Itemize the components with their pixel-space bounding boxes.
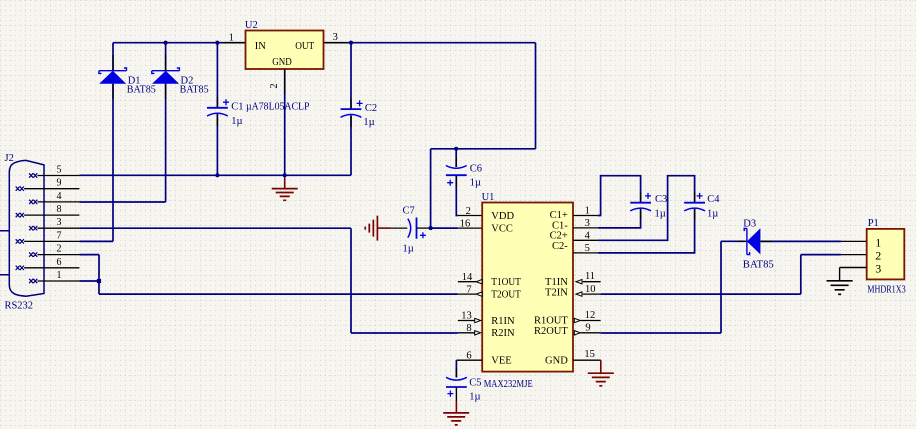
P1 pin 3 line and ground wire (840, 268, 867, 281)
wire C5 to ground (455, 387, 457, 413)
label BAT85 of D1 (127, 83, 156, 95)
U1 pin 13 (R1IN) arrow (458, 318, 481, 322)
svg-text:D3: D3 (743, 218, 756, 229)
svg-text:C1: C1 (231, 102, 243, 113)
label C1 (231, 102, 243, 113)
U1 pin name C2- (552, 241, 568, 252)
ground symbol below U1 pin 15 (588, 360, 614, 386)
junction D2-rail (164, 41, 168, 45)
U1 pin name T2OUT (491, 290, 521, 301)
wire U2 pin 3 to corner x535 (324, 42, 536, 44)
svg-text:J2: J2 (5, 153, 14, 164)
ground symbol below U2 (272, 175, 298, 200)
wire J2 pin 2 down (79, 255, 99, 295)
U2 pin name GND (272, 57, 292, 68)
svg-text:7: 7 (466, 284, 471, 295)
svg-text:T2IN: T2IN (545, 288, 568, 299)
svg-text:2: 2 (57, 244, 62, 255)
svg-text:R2OUT: R2OUT (534, 326, 568, 337)
connector J2 pin 4 contact (29, 200, 37, 204)
svg-text:BAT85: BAT85 (127, 83, 156, 95)
svg-text:GND: GND (545, 356, 568, 367)
U1 pin name VEE (491, 356, 511, 367)
svg-text:9: 9 (57, 178, 62, 189)
svg-text:C3: C3 (655, 194, 667, 205)
svg-text:13: 13 (461, 311, 472, 322)
svg-text:16: 16 (460, 218, 471, 229)
svg-text:T1IN: T1IN (545, 277, 568, 288)
pin number 3 of U2 (333, 32, 338, 43)
U1 pin 16 number (460, 218, 471, 229)
capacitor C1 vertical wires (216, 43, 218, 176)
svg-text:1: 1 (57, 270, 62, 281)
connector J2 pin 1 contact (29, 279, 37, 283)
P1 pin 2 number (875, 249, 881, 263)
ground symbol below C5 (443, 413, 469, 425)
P1 pin 3 number (875, 262, 881, 276)
svg-text:U1: U1 (482, 192, 495, 203)
diode D1 vertical wire (cathode up to rail, anode down to pin 7 wire) (79, 43, 113, 242)
connector J2 pin 7 contact (16, 239, 24, 243)
U1 pin 13 number (461, 311, 472, 322)
label C4 (707, 194, 720, 205)
U1 pin 8 (R2IN) arrow (458, 331, 481, 335)
capacitor C5 (446, 377, 467, 396)
wire D3 anode to P1 pin 1 (760, 240, 866, 242)
value 1u of C7 (403, 244, 414, 255)
svg-text:15: 15 (584, 349, 595, 360)
svg-text:U2: U2 (245, 20, 258, 31)
svg-text:GND: GND (272, 57, 292, 68)
connector J2 pin 6 line (24, 267, 79, 269)
U1 pin name GND (545, 356, 568, 367)
wire vertical x535 down (535, 43, 537, 149)
svg-text:2: 2 (269, 83, 280, 88)
U1 pin name R1IN (491, 316, 515, 327)
capacitor C6 (446, 166, 467, 186)
U1 pin 12 (R1OUT) stub (574, 318, 600, 322)
value 1u of C4 (707, 209, 718, 220)
junction C7-VCC node (429, 226, 433, 230)
svg-text:1µ: 1µ (231, 116, 242, 127)
diode D1 (BAT85 schottky) (99, 68, 127, 84)
U1 pin name C1+ (550, 210, 568, 221)
svg-text:7: 7 (57, 230, 62, 241)
svg-text:2: 2 (466, 206, 471, 217)
connector J2 pin 5 contact (29, 173, 37, 177)
U1 pin name VCC (491, 223, 513, 234)
svg-text:8: 8 (466, 323, 471, 334)
svg-text:5: 5 (585, 243, 590, 254)
svg-text:T2OUT: T2OUT (491, 290, 521, 301)
U1 pin 10 number (585, 284, 596, 295)
svg-text:4: 4 (585, 230, 591, 241)
label C5 (469, 378, 481, 389)
wire U1 pin4 to C4 (598, 176, 695, 241)
connector J2 pin 9 line (24, 188, 79, 190)
svg-text:C2-: C2- (552, 241, 568, 252)
svg-text:C2: C2 (365, 103, 377, 114)
value 1u of C1 (231, 116, 242, 127)
value 1u of C2 (363, 117, 374, 128)
U1 pin 6 number (466, 350, 471, 361)
pin number 8 of J2 (57, 204, 62, 215)
svg-text:3: 3 (57, 217, 62, 228)
connector J2 pin 4 line (38, 201, 80, 203)
U1 pin name R1OUT (534, 316, 568, 327)
connector J2 pin 2 line (38, 254, 80, 256)
svg-text:R1IN: R1IN (491, 316, 515, 327)
label D1 (128, 76, 141, 87)
svg-text:8: 8 (57, 204, 62, 215)
svg-text:1µ: 1µ (403, 244, 414, 255)
pin number 1 of U2 (229, 32, 234, 43)
svg-text:R2IN: R2IN (491, 328, 515, 339)
capacitor C6 wires (456, 149, 482, 216)
label C7 (403, 206, 415, 217)
svg-text:µA78L05ACLP: µA78L05ACLP (246, 101, 310, 113)
U1 pin 9 number (585, 323, 590, 334)
pin number 2 of J2 (57, 244, 62, 255)
U1 pin 14 (T1OUT) stub (458, 280, 482, 284)
svg-text:MAX232MJE: MAX232MJE (484, 378, 533, 390)
diode D3 (BAT85 schottky) (744, 228, 760, 254)
U1 pin 15 number (584, 349, 595, 360)
svg-text:1µ: 1µ (363, 117, 374, 128)
label C6 (470, 163, 482, 174)
ground symbol left of C7 (365, 216, 390, 241)
svg-text:BAT85: BAT85 (743, 258, 774, 270)
svg-text:C7: C7 (403, 206, 415, 217)
wire horizontal rail y148 to C6/VDD (431, 148, 536, 150)
pin number 4 of J2 (57, 191, 62, 202)
junction C2-rail top (349, 41, 353, 45)
connector J2 pin 3 line (38, 227, 80, 229)
svg-text:10: 10 (585, 284, 596, 295)
junction C1-ground rail (215, 173, 219, 177)
wire U1 pin6 to C5 (455, 360, 457, 377)
wire VCC node to U1 pin 16 (431, 227, 483, 229)
pin number 3 of J2 (57, 217, 62, 228)
svg-text:C5: C5 (469, 378, 481, 389)
svg-text:3: 3 (585, 218, 590, 229)
U1 pin 4 line (573, 239, 598, 241)
svg-text:VEE: VEE (491, 356, 511, 367)
regulator U2 box (246, 31, 324, 70)
wire vertical x430 down to VCC node (430, 149, 432, 228)
U1 pin 5 line (573, 252, 598, 254)
capacitor C1 (207, 99, 229, 116)
junction C1-rail top (215, 41, 219, 45)
capacitor C4 (684, 193, 705, 211)
U1 pin name VDD (491, 211, 514, 222)
svg-text:6: 6 (466, 350, 471, 361)
junction C6-rail (454, 147, 458, 151)
wire C4 to U1 pin5 (598, 209, 695, 253)
U1 pin name R2OUT (534, 326, 568, 337)
value 1u of C3 (655, 209, 666, 220)
U1 pin 7 number (466, 284, 471, 295)
diode D2 vertical wire (cathode to rail junction, anode to pin 4 wire) (79, 43, 165, 202)
svg-text:12: 12 (585, 310, 596, 321)
label C3 (655, 194, 667, 205)
value 1u of C6 (470, 178, 481, 189)
U1 pin 11 number (585, 271, 595, 282)
svg-text:R1OUT: R1OUT (534, 316, 568, 327)
label uA78L05ACLP (246, 101, 310, 113)
U1 pin 3 number (585, 218, 590, 229)
U1 pin name T1IN (545, 277, 568, 288)
U1 pin 1 number (585, 206, 590, 217)
svg-text:3: 3 (333, 32, 338, 43)
svg-text:9: 9 (585, 323, 590, 334)
wire U1 pin1 to C3 (598, 176, 641, 216)
connector J2 body (0, 160, 44, 296)
ground symbol at P1 (black) (827, 281, 853, 295)
pin number 2 of U2 (rotated) (269, 83, 280, 88)
pin number 7 of J2 (57, 230, 62, 241)
U1 pin 6 (VEE) line (456, 359, 482, 361)
label MHDR1X3 (867, 285, 906, 296)
label U1 (482, 192, 495, 203)
U1 pin name C2+ (550, 231, 568, 242)
svg-text:T1OUT: T1OUT (491, 277, 521, 288)
U2 pin name OUT (295, 41, 315, 52)
U2 pin 2 (GND) vertical wire (284, 69, 286, 175)
connector J2 pin 1 line (38, 280, 80, 282)
wire ground rail from J2 pin 5 (79, 174, 351, 176)
svg-text:3: 3 (875, 262, 881, 276)
svg-text:1µ: 1µ (470, 178, 481, 189)
value 1u of C5 (469, 391, 480, 402)
capacitor C3 (630, 193, 651, 211)
pin number 1 of J2 (57, 270, 62, 281)
label J2 (5, 153, 14, 164)
svg-text:1: 1 (229, 32, 234, 43)
svg-text:1µ: 1µ (469, 391, 480, 402)
svg-text:RS232: RS232 (5, 299, 34, 311)
svg-text:1: 1 (585, 206, 590, 217)
svg-text:OUT: OUT (295, 41, 315, 52)
wire C3 to U1 pin3 (598, 209, 641, 228)
P1 pin 1 number (875, 236, 881, 250)
label D3 (743, 218, 756, 229)
junction U2 gnd-rail (283, 173, 287, 177)
U1 pin name T1OUT (491, 277, 521, 288)
U1 pin 4 number (585, 230, 591, 241)
U1 pin 9 (R2OUT) arrow (574, 331, 600, 335)
U1 pin name T2IN (545, 288, 568, 299)
svg-text:VDD: VDD (491, 211, 514, 222)
label BAT85 of D3 (743, 258, 774, 270)
U1 pin 15 (GND) line (573, 359, 601, 361)
svg-text:IN: IN (255, 41, 266, 52)
svg-text:C4: C4 (707, 194, 720, 205)
label BAT85 of D2 (180, 83, 209, 95)
U1 pin 12 number (585, 310, 596, 321)
wire T2OUT long horizontal (99, 293, 458, 295)
U1 pin 1 line (573, 215, 598, 217)
U1 pin 2 number (466, 206, 471, 217)
connector J2 pin 2 contact (29, 252, 37, 256)
ic U1 box (482, 203, 573, 372)
capacitor C7 horizontal (390, 218, 431, 239)
svg-text:4: 4 (57, 191, 62, 202)
pin number 9 of J2 (57, 178, 62, 189)
connector J2 pin 6 contact (16, 266, 24, 270)
pin number 6 of J2 (57, 257, 62, 268)
label MAX232MJE (484, 378, 533, 390)
svg-text:MHDR1X3: MHDR1X3 (867, 285, 906, 296)
label RS232 (5, 299, 34, 311)
diode D2 (BAT85 schottky) (152, 68, 180, 84)
svg-text:11: 11 (585, 271, 595, 282)
label C2 (365, 103, 377, 114)
svg-text:1: 1 (875, 236, 881, 250)
svg-text:14: 14 (462, 272, 473, 283)
svg-text:2: 2 (875, 249, 881, 263)
U2 pin name IN (255, 41, 266, 52)
capacitor C2 vertical wires (350, 43, 352, 176)
wire top +V rail from D1 to U2 pin 1 (113, 42, 246, 44)
connector J2 pin 3 contact (29, 226, 37, 230)
U1 pin name C1- (552, 220, 568, 231)
svg-text:5: 5 (57, 165, 62, 176)
svg-text:6: 6 (57, 257, 62, 268)
svg-text:BAT85: BAT85 (180, 83, 209, 95)
label P1 (868, 218, 879, 229)
U1 pin 11 (T1IN) stub (576, 280, 601, 284)
connector J2 pin 7 line (24, 240, 79, 242)
U1 pin 5 number (585, 243, 590, 254)
U1 pin 8 number (466, 323, 471, 334)
wire J2 pin 1 stub (79, 280, 99, 282)
label U2 (245, 20, 258, 31)
label D2 (181, 76, 194, 87)
svg-text:P1: P1 (868, 218, 879, 229)
U1 pin 14 number (462, 272, 473, 283)
svg-text:1µ: 1µ (655, 209, 666, 220)
wire J2 pin 3 to R2IN (79, 228, 458, 333)
svg-text:1µ: 1µ (707, 209, 718, 220)
wire R2OUT to D3 (601, 241, 747, 333)
U1 pin 7 (T2OUT) arrow (458, 292, 482, 296)
wire T2IN to P1 pin 2 (601, 255, 867, 295)
connector J2 pin 8 line (24, 214, 79, 216)
connector J2 pin 5 line (38, 175, 80, 177)
capacitor C2 (341, 100, 363, 117)
svg-text:C6: C6 (470, 163, 482, 174)
connector P1 box (867, 229, 905, 280)
U1 pin 10 (T2IN) arrow (576, 292, 601, 296)
junction J2 pin1-pin2 wires (97, 279, 101, 283)
connector J2 pin 8 contact (16, 213, 24, 217)
U1 pin name R2IN (491, 328, 515, 339)
U1 pin 3 line (573, 227, 598, 229)
svg-text:VCC: VCC (491, 223, 513, 234)
pin number 5 of J2 (57, 165, 62, 176)
connector J2 pin 9 contact (16, 187, 24, 191)
